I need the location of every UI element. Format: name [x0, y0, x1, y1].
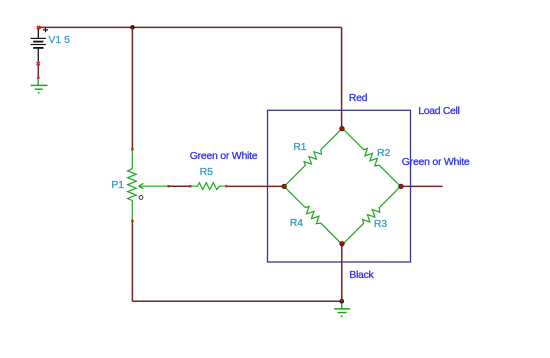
resistor R4 (bridge left-bottom) — [282, 184, 345, 247]
ground (bridge) — [334, 303, 350, 317]
node Red (bridge top) — [340, 126, 344, 130]
pin marker battery - (red X) — [37, 62, 40, 65]
load cell box — [268, 110, 411, 262]
label R1 — [293, 142, 306, 153]
wire bridge bottom node to ground rail — [341, 244, 343, 301]
pin marker R5 right — [225, 185, 228, 188]
wire P1 wiper to R5 — [170, 185, 190, 187]
wire top horizontal (battery + to bridge top) — [39, 26, 342, 28]
wire battery - to ground — [37, 65, 39, 77]
resistor R3 (bridge bottom-right) — [340, 184, 403, 247]
label R4 — [290, 218, 303, 229]
label net Black — [349, 270, 373, 281]
wire right vertical (down to bridge top node) — [341, 27, 343, 128]
wire left vertical lower (P1 bottom to bottom rail) — [131, 222, 133, 301]
wire left vertical upper (junction A to P1 top pin) — [131, 27, 133, 148]
junction A (top wire / pot branch) — [130, 25, 135, 30]
label P1 — [111, 180, 124, 191]
node Green or White (bridge right output) — [399, 184, 403, 188]
node Black (bridge bottom) — [340, 242, 344, 246]
label V1 5 — [48, 35, 70, 46]
wire bridge right node to output — [401, 185, 443, 187]
resistor R5 — [192, 183, 226, 190]
pin marker P1 wiper — [167, 185, 170, 188]
wire bottom rail — [132, 300, 341, 302]
label net Green or White (right) — [402, 157, 470, 168]
pin marker ground (battery) — [37, 77, 40, 80]
label R2 — [377, 148, 390, 159]
ground (battery) — [31, 79, 48, 93]
node left (bridge input) — [282, 184, 286, 188]
resistor R1 (bridge left-top) — [284, 129, 342, 187]
pin marker P1 top — [131, 148, 134, 151]
pin marker R5 left — [189, 185, 192, 188]
label R5 — [200, 167, 213, 178]
label net Green or White (left) — [190, 151, 258, 162]
battery V1 — [31, 28, 49, 62]
label Load Cell — [418, 106, 459, 117]
junction ground rail — [340, 299, 345, 304]
resistor R2 (bridge top-right) — [340, 126, 403, 189]
wire R5 to bridge left node — [228, 185, 284, 187]
pin marker P1 bottom — [131, 220, 134, 223]
potentiometer P1 — [128, 150, 168, 220]
label net Red — [349, 93, 367, 104]
label R3 — [374, 219, 387, 230]
pin marker battery + (red X) — [37, 26, 40, 29]
